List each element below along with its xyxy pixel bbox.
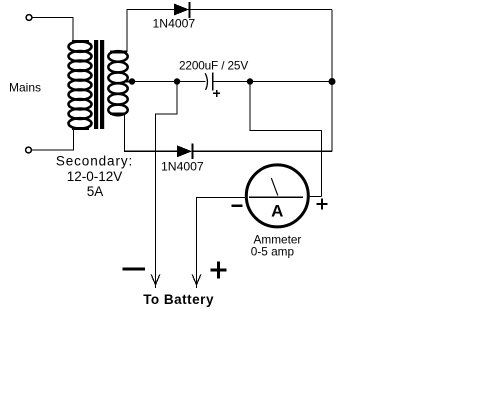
wire ammeter plus terminal xyxy=(310,196,322,198)
svg-text:12-0-12V: 12-0-12V xyxy=(67,169,123,184)
svg-text:0-5 amp: 0-5 amp xyxy=(251,244,295,258)
wire mains bottom to primary xyxy=(32,129,74,151)
svg-text:Mains: Mains xyxy=(9,81,41,95)
transformer T1 core xyxy=(94,40,104,129)
battery plus arrowhead xyxy=(192,275,201,285)
wire secondary top to diode D1 (top rail) xyxy=(127,10,174,53)
diode D1 xyxy=(174,2,190,18)
capacitor C1 xyxy=(205,72,220,96)
node secondary center tap xyxy=(129,78,135,84)
ammeter plus terminal label xyxy=(316,198,327,209)
diode D2 xyxy=(177,144,192,160)
wire mains top to primary xyxy=(32,18,73,41)
node capacitor plus junction xyxy=(247,78,253,84)
wire ammeter minus to battery plus arrow xyxy=(197,197,247,288)
mains terminal top xyxy=(26,15,32,21)
svg-text:2200uF / 25V: 2200uF / 25V xyxy=(179,58,248,72)
svg-text:1N4007: 1N4007 xyxy=(161,159,204,173)
transformer T1 secondary winding xyxy=(108,51,131,115)
label Mains xyxy=(9,81,41,95)
ammeter M1 xyxy=(246,165,308,227)
wire secondary bottom to diode D2 xyxy=(125,114,178,152)
svg-text:5A: 5A xyxy=(87,184,104,199)
label Ammeter 0-5 amp xyxy=(251,233,302,259)
label To Battery xyxy=(143,292,214,307)
wire minus branch to battery minus arrow xyxy=(156,82,178,289)
ammeter minus terminal label xyxy=(232,205,243,207)
svg-text:A: A xyxy=(271,202,283,221)
label battery plus xyxy=(210,262,226,279)
label 1N4007 (D2) xyxy=(161,159,204,173)
wire center tap to capacitor C1 xyxy=(132,81,206,83)
node right rail junction xyxy=(329,78,336,85)
svg-text:To Battery: To Battery xyxy=(143,292,214,307)
label battery minus xyxy=(122,268,144,271)
svg-text:1N4007: 1N4007 xyxy=(153,17,196,31)
wire C1 positive to right rail xyxy=(213,81,332,83)
label 1N4007 (D1) xyxy=(153,17,196,31)
wire D1 cathode to right rail xyxy=(189,9,332,11)
battery minus arrowhead xyxy=(151,275,160,285)
wire right rail xyxy=(331,10,333,152)
label Secondary: 12-0-12V 5A xyxy=(56,154,133,199)
label 2200uF / 25V xyxy=(179,58,248,72)
svg-text:Secondary:: Secondary: xyxy=(56,154,133,169)
node minus branch junction xyxy=(174,78,180,84)
mains terminal bottom xyxy=(26,147,32,153)
wire D2 cathode to right rail xyxy=(192,150,332,152)
wire plus junction to ammeter plus terminal xyxy=(250,82,322,197)
transformer T1 primary winding xyxy=(69,41,92,128)
